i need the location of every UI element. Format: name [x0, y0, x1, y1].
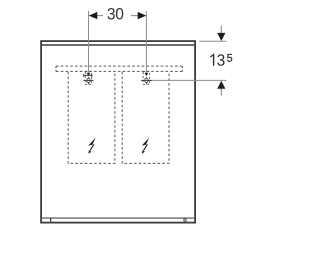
- dimension 30: value label "0": [116, 8, 123, 20]
- right conduit connection: pipe ellipse: [145, 78, 148, 82]
- cabinet outer body: [41, 41, 195, 223]
- mounting rail (hidden, dashed): [56, 66, 182, 71]
- right electrical flash symbol: [142, 138, 149, 154]
- dimension 30: right extension line: [145, 11, 147, 73]
- dimension 13.5: top extension line: [199, 40, 226, 42]
- left water connection: horizontal axis line: [83, 79, 93, 81]
- dimension 13.5: value label "3": [217, 54, 224, 66]
- dimension 30: left arrow: [89, 12, 103, 19]
- left water connection: dashed outline box: [85, 71, 91, 84]
- dimension 13.5: bottom arrow (pointing up): [217, 81, 225, 96]
- left water connection: arrowhead on extension line: [87, 73, 91, 77]
- dimension 30: right arrow: [131, 12, 146, 19]
- left electrical flash symbol: [88, 138, 95, 154]
- dimension 13.5: top arrow (pointing down): [217, 26, 225, 41]
- left water connection: pipe ellipse: [87, 78, 90, 82]
- right conduit connection: dashed outline box: [143, 71, 149, 84]
- left water connection: upper cross bar: [83, 74, 92, 77]
- cabinet bottom inner edge line: [42, 217, 194, 219]
- right conduit connection: vertical axis stubs: [145, 77, 147, 79]
- right door / light box (hidden, dashed): [122, 72, 169, 164]
- dimension 13.5: value label "1": [210, 54, 214, 66]
- dimension 13.5: bottom extension / leader line to right conduit: [152, 79, 226, 81]
- left door / light box (hidden, dashed): [68, 72, 115, 164]
- left water connection: vertical axis stubs: [88, 77, 90, 79]
- right conduit connection: arrowhead on extension line: [145, 73, 149, 77]
- dimension 30: value label "3": [108, 8, 115, 20]
- bottom band right hinge circle: [184, 219, 187, 222]
- dimension 13.5: superscript "5": [227, 54, 232, 62]
- bottom band left tick: [50, 218, 52, 222]
- right conduit connection: horizontal axis line: [141, 79, 152, 81]
- dimension 30: left extension line: [88, 11, 90, 73]
- cabinet top inner edge line: [42, 44, 194, 46]
